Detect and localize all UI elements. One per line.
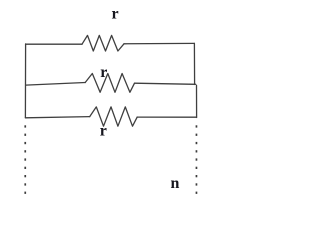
resistor R2 (middle branch, value r) xyxy=(85,74,134,93)
svg-text:r: r xyxy=(100,64,107,81)
dotted continuation line, right bus xyxy=(196,125,198,194)
dotted continuation line, left bus xyxy=(24,125,26,194)
resistor R1 (top branch, value r) xyxy=(82,35,124,51)
wire: bottom branch left segment xyxy=(25,117,89,118)
wire: middle branch left segment xyxy=(26,83,85,86)
svg-text:r: r xyxy=(112,6,119,23)
wire: bottom branch right segment xyxy=(137,116,196,118)
resistor R3 (bottom branch, value r) xyxy=(90,107,138,126)
wire: top branch right segment xyxy=(124,42,194,44)
svg-text:r: r xyxy=(100,123,107,140)
svg-text:n: n xyxy=(171,175,180,192)
wire: left vertical bus xyxy=(24,44,26,118)
wire: top branch left segment xyxy=(26,43,82,45)
wire: right vertical bus upper segment xyxy=(193,43,195,84)
wire: right vertical bus lower segment xyxy=(196,85,198,117)
wire: middle branch right segment xyxy=(135,83,196,84)
